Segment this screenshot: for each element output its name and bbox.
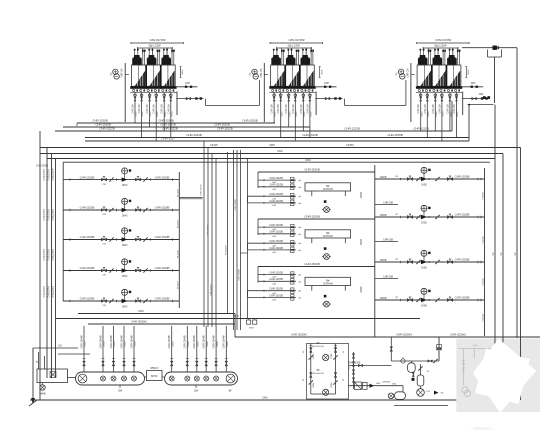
svg-text:1520B: 1520B <box>379 258 386 262</box>
svg-text:CHR-15#: CHR-15# <box>146 104 149 114</box>
svg-text:CHR-1520B: CHR-1520B <box>269 239 283 243</box>
svg-text:CHR-1520B: CHR-1520B <box>155 235 170 239</box>
svg-text:CHR-1520B: CHR-1520B <box>155 266 170 270</box>
svg-text:PL-15TH: PL-15TH <box>177 280 179 289</box>
svg-text:CHR-15#4B: CHR-15#4B <box>183 335 187 348</box>
svg-text:CHR-1520B: CHR-1520B <box>269 287 283 291</box>
svg-text:CHR-1522B: CHR-1522B <box>99 127 114 131</box>
svg-text:CHR-15#: CHR-15# <box>446 104 449 114</box>
svg-text:DN0: DN0 <box>233 314 239 318</box>
svg-text:PL-15TH: PL-15TH <box>177 219 179 228</box>
svg-text:T-DOLIC: T-DOLIC <box>483 314 485 322</box>
svg-text:CHR-15TH: CHR-15TH <box>48 209 51 220</box>
svg-text:CHR-1520B: CHR-1520B <box>80 266 95 270</box>
svg-text:37B#4.0: 37B#4.0 <box>150 367 159 370</box>
svg-text:CHR-2520B: CHR-2520B <box>304 168 319 172</box>
svg-text:CHR-2520#1: CHR-2520#1 <box>291 333 307 337</box>
svg-text:DN#: DN# <box>185 82 190 85</box>
svg-text:CH/TH#1: CH/TH#1 <box>323 234 334 238</box>
svg-text:DN0: DN0 <box>277 149 283 153</box>
svg-text:CHR-15#4B: CHR-15#4B <box>129 335 133 348</box>
svg-text:CHR-15TH: CHR-15TH <box>43 286 46 297</box>
svg-text:DN5#: DN5# <box>198 341 200 347</box>
svg-text:CHR-2520B: CHR-2520B <box>304 262 319 266</box>
svg-text:C#N-63725#: C#N-63725# <box>288 38 304 42</box>
svg-text:CHR-2520#1: CHR-2520#1 <box>131 320 147 324</box>
svg-text:2950: 2950 <box>269 143 275 147</box>
svg-text:CHR-1520B: CHR-1520B <box>269 230 283 234</box>
svg-text:CHR-1520B: CHR-1520B <box>455 213 470 217</box>
svg-text:CHR-1520B: CHR-1520B <box>269 246 283 250</box>
svg-text:DN5#: DN5# <box>85 341 87 347</box>
svg-text:CHR-15#: CHR-15# <box>438 104 441 114</box>
svg-text:CH/TH#1: CH/TH#1 <box>323 187 334 191</box>
svg-text:DN40: DN40 <box>122 185 128 187</box>
svg-text:C#N-63725#: C#N-63725# <box>435 38 451 42</box>
svg-text:□ zhulong.com □: □ zhulong.com □ <box>471 427 493 431</box>
svg-text:DN40: DN40 <box>122 215 128 217</box>
svg-text:CHR-15#: CHR-15# <box>167 104 170 114</box>
svg-text:CHR-15TH: CHR-15TH <box>52 209 55 220</box>
svg-text:CHR-2520B: CHR-2520B <box>239 269 241 281</box>
svg-text:CHR-15#4B: CHR-15#4B <box>202 335 206 348</box>
svg-text:CHR-15#4B: CHR-15#4B <box>212 335 216 348</box>
svg-text:CHR-2520#1: CHR-2520#1 <box>396 333 412 337</box>
svg-text:CHR-1520B: CHR-1520B <box>36 165 48 168</box>
svg-text:CHR-15#: CHR-15# <box>277 104 280 114</box>
svg-text:DN40: DN40 <box>122 306 128 308</box>
svg-text:CHR-1520B: CHR-1520B <box>80 175 95 179</box>
svg-text:CHR-15#: CHR-15# <box>424 104 427 114</box>
svg-text:DN#: DN# <box>479 93 484 96</box>
svg-text:CHR-15TH: CHR-15TH <box>48 169 51 180</box>
svg-text:CHR-15#4B: CHR-15#4B <box>98 335 102 348</box>
svg-text:DN50: DN50 <box>421 185 427 187</box>
svg-text:CHR-15#: CHR-15# <box>132 104 135 114</box>
svg-text:CHR-152TH: CHR-152TH <box>201 184 203 196</box>
svg-text:DN50: DN50 <box>421 223 427 225</box>
svg-text:PL-15TH: PL-15TH <box>177 188 179 197</box>
svg-text:CHR-15#: CHR-15# <box>292 104 295 114</box>
svg-text:3@1,125#: 3@1,125# <box>287 44 300 48</box>
svg-text:3@1,125#: 3@1,125# <box>434 44 447 48</box>
svg-text:CHR-15#: CHR-15# <box>306 104 309 114</box>
svg-text:CHR-1520B: CHR-1520B <box>269 183 283 187</box>
svg-text:1520B: 1520B <box>379 213 386 217</box>
svg-text:CHR-1520B: CHR-1520B <box>155 175 170 179</box>
svg-text:CHR-2520B: CHR-2520B <box>304 215 319 219</box>
svg-text:CHR-1520B: CHR-1520B <box>269 293 283 297</box>
svg-text:CHR-1520B: CHR-1520B <box>269 176 283 180</box>
svg-text:CHR-1520B: CHR-1520B <box>242 119 257 123</box>
svg-text:CHR-4525B: CHR-4525B <box>387 133 402 137</box>
svg-text:DN5#: DN5# <box>125 341 127 347</box>
svg-text:CHR-15#: CHR-15# <box>138 104 141 114</box>
svg-text:DN5#: DN5# <box>217 341 219 347</box>
svg-text:CHR-1524B: CHR-1524B <box>186 133 201 137</box>
svg-text:1520B: 1520B <box>379 296 386 300</box>
svg-text:T-DOLIC: T-DOLIC <box>483 236 485 244</box>
svg-text:CHR-15TH: CHR-15TH <box>52 169 55 180</box>
svg-text:CHR-15TH: CHR-15TH <box>48 286 51 297</box>
svg-text:CHR-152TH: CHR-152TH <box>211 284 213 296</box>
svg-text:DN#: DN# <box>324 82 329 85</box>
svg-text:CHR-1225B: CHR-1225B <box>344 127 359 131</box>
svg-text:T-DOLIC: T-DOLIC <box>483 278 485 286</box>
svg-text:CHR-15#4B: CHR-15#4B <box>79 335 83 348</box>
svg-text:DN5#: DN5# <box>135 341 137 347</box>
svg-text:CHR-15TH: CHR-15TH <box>48 249 51 260</box>
svg-text:CHR-15TH: CHR-15TH <box>43 169 46 180</box>
svg-text:CHR-15#4B: CHR-15#4B <box>192 335 196 348</box>
svg-text:CHR-15TH: CHR-15TH <box>43 249 46 260</box>
svg-text:3@1,125#: 3@1,125# <box>148 44 161 48</box>
svg-text:CHR-15#: CHR-15# <box>407 68 409 78</box>
svg-text:CHR-1520B: CHR-1520B <box>155 297 170 301</box>
svg-text:CHR-1520B: CHR-1520B <box>269 271 283 275</box>
svg-text:DN5#: DN5# <box>227 341 229 347</box>
svg-text:DN50: DN50 <box>421 306 427 308</box>
svg-text:CHR-15#: CHR-15# <box>122 68 124 78</box>
svg-text:DN50: DN50 <box>346 143 354 147</box>
svg-text:CHR-15B: CHR-15B <box>383 275 393 278</box>
svg-text:CHR-2520#1: CHR-2520#1 <box>450 333 466 337</box>
svg-text:DN5#: DN5# <box>104 341 106 347</box>
svg-text:DN5#: DN5# <box>172 341 174 347</box>
svg-text:CHR-15#: CHR-15# <box>285 104 288 114</box>
svg-text:CHR-15#: CHR-15# <box>300 104 303 114</box>
svg-text:B#T0#: B#T0# <box>151 376 158 378</box>
svg-text:DN40: DN40 <box>122 245 128 247</box>
svg-text:CHR-1520B: CHR-1520B <box>269 192 283 196</box>
svg-text:CHR-1520B: CHR-1520B <box>269 277 283 281</box>
svg-text:DN0: DN0 <box>305 158 311 162</box>
svg-text:CHR-15#: CHR-15# <box>161 104 164 114</box>
svg-text:DN: DN <box>58 345 62 348</box>
svg-text:CHR-15#: CHR-15# <box>261 68 263 78</box>
svg-text:CHR-15TH: CHR-15TH <box>52 286 55 297</box>
svg-text:DN50: DN50 <box>421 268 427 270</box>
svg-text:CHR-152TH: CHR-152TH <box>207 224 209 236</box>
svg-text:DN40: DN40 <box>122 276 128 278</box>
svg-text:B#B#: B#B# <box>249 328 255 330</box>
svg-text:T-DOLIC: T-DOLIC <box>483 192 485 200</box>
svg-text:DN5#: DN5# <box>207 341 209 347</box>
svg-text:CHR-1522B: CHR-1522B <box>217 127 232 131</box>
svg-text:CHR-15#: CHR-15# <box>432 104 435 114</box>
svg-text:CHR-15#4B: CHR-15#4B <box>119 335 123 348</box>
svg-text:CHR-1520B: CHR-1520B <box>455 296 470 300</box>
svg-text:PL-15TH: PL-15TH <box>177 249 179 258</box>
svg-text:CHR-15TH: CHR-15TH <box>52 249 55 260</box>
svg-text:CHR-1520B: CHR-1520B <box>455 175 470 179</box>
svg-text:DN5#: DN5# <box>188 341 190 347</box>
svg-text:1520B: 1520B <box>379 175 386 179</box>
svg-text:CHR-1517: CHR-1517 <box>161 137 175 141</box>
svg-text:CHR/DN: CHR/DN <box>382 381 390 383</box>
svg-text:CHR-1520B: CHR-1520B <box>269 199 283 203</box>
svg-text:CHR-1520B: CHR-1520B <box>80 206 95 210</box>
svg-text:DN#: DN# <box>473 345 478 348</box>
svg-text:CHR-15#: CHR-15# <box>153 104 156 114</box>
svg-text:CHR-15#: CHR-15# <box>271 104 274 114</box>
svg-text:CHR-15TH: CHR-15TH <box>226 244 228 255</box>
svg-text:CHR-2520B: CHR-2520B <box>348 361 361 364</box>
svg-text:DN: DN <box>427 391 430 393</box>
svg-text:DN#: DN# <box>471 82 476 85</box>
svg-text:CHR-15#: CHR-15# <box>453 104 456 114</box>
svg-text:B#04B: B#04B <box>39 394 46 396</box>
svg-text:CHR-1520B: CHR-1520B <box>455 258 470 262</box>
svg-text:DN5#: DN5# <box>114 341 116 347</box>
svg-text:CHR-1520B: CHR-1520B <box>155 206 170 210</box>
svg-text:CH/TH#1: CH/TH#1 <box>323 281 334 285</box>
svg-text:DN25: DN25 <box>210 143 218 147</box>
svg-text:CHR-15B: CHR-15B <box>383 201 393 204</box>
svg-text:[4Dx4Dx4.5]: [4Dx4Dx4.5] <box>313 373 324 375</box>
svg-text:C#N-63725#: C#N-63725# <box>149 38 165 42</box>
svg-text:DN0: DN0 <box>138 309 144 313</box>
svg-text:CHR-15#4B: CHR-15#4B <box>222 335 226 348</box>
svg-text:CHR-1520B: CHR-1520B <box>80 235 95 239</box>
svg-text:CHR-15B: CHR-15B <box>383 238 393 241</box>
svg-text:DN0: DN0 <box>263 396 269 400</box>
svg-text:CHR-2520B: CHR-2520B <box>235 199 237 211</box>
svg-text:CHR-15TH: CHR-15TH <box>43 209 46 220</box>
svg-text:CHR-1220B: CHR-1220B <box>413 127 428 131</box>
svg-text:CHR-1522B: CHR-1522B <box>162 127 177 131</box>
svg-text:CHR-1520B: CHR-1520B <box>269 223 283 227</box>
svg-text:CHR-15#4B: CHR-15#4B <box>109 335 113 348</box>
svg-text:CHR-15#: CHR-15# <box>417 104 420 114</box>
svg-text:CHR-1523B: CHR-1523B <box>302 133 317 137</box>
svg-text:CHR-1520B: CHR-1520B <box>80 297 95 301</box>
svg-text:CHR-15#4B: CHR-15#4B <box>167 335 171 348</box>
svg-text:[4Dx4Dx4.5]: [4Dx4Dx4.5] <box>313 346 324 348</box>
